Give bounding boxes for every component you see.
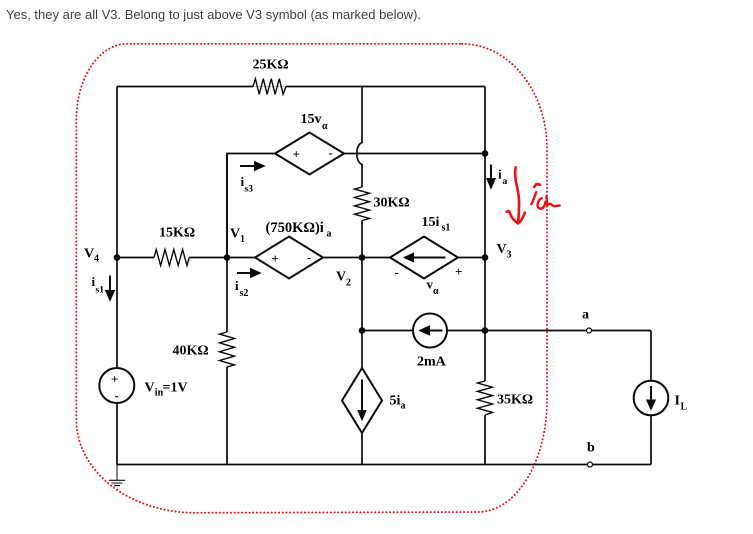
node dot at x485 y330.5 bbox=[482, 327, 489, 334]
current arrow i_a bbox=[486, 165, 496, 190]
svg-text:s3: s3 bbox=[245, 185, 254, 195]
svg-text:α: α bbox=[433, 286, 439, 297]
label 35KΩ bbox=[497, 393, 533, 408]
label i_a bbox=[498, 167, 508, 188]
svg-text:V: V bbox=[84, 247, 94, 262]
svg-text:a: a bbox=[582, 307, 589, 322]
svg-text:+: + bbox=[272, 251, 279, 266]
current arrow i_s1 bbox=[105, 276, 115, 302]
svg-text:35KΩ: 35KΩ bbox=[497, 393, 533, 408]
node V2 dot bbox=[359, 254, 366, 261]
node dot at x362 y330.5 bbox=[359, 327, 366, 334]
dependent source U1 15v_alpha diamond bbox=[275, 133, 344, 175]
label V1 bbox=[230, 227, 245, 245]
svg-text:a: a bbox=[503, 177, 508, 187]
label 30KΩ bbox=[374, 196, 410, 211]
label 40KΩ bbox=[173, 344, 209, 359]
svg-text:15i: 15i bbox=[422, 215, 440, 230]
resistor 25KΩ bbox=[253, 79, 286, 95]
svg-text:V: V bbox=[497, 242, 507, 257]
label (750KΩ)i_a bbox=[266, 220, 332, 239]
svg-text:+: + bbox=[111, 372, 118, 387]
svg-text:=1V: =1V bbox=[163, 381, 188, 396]
svg-text:V: V bbox=[336, 269, 346, 284]
svg-text:i: i bbox=[235, 278, 239, 293]
terminal b bbox=[587, 441, 595, 468]
label 5i_a bbox=[390, 394, 406, 412]
label V2 bbox=[336, 269, 351, 288]
node V1 dot bbox=[224, 254, 231, 261]
current arrow i_s3 bbox=[240, 161, 266, 171]
wire IL branch vertical (x=651) bbox=[650, 331, 652, 465]
voltage source Vin circle bbox=[99, 368, 134, 403]
label i_s2 bbox=[235, 278, 248, 299]
label V4 bbox=[84, 247, 99, 265]
svg-text:-: - bbox=[395, 265, 399, 280]
svg-text:-: - bbox=[307, 250, 311, 265]
svg-text:α: α bbox=[322, 121, 328, 132]
label 15KΩ bbox=[159, 226, 195, 241]
svg-text:+: + bbox=[455, 264, 462, 279]
terminal a bbox=[582, 307, 592, 333]
svg-text:5i: 5i bbox=[390, 394, 401, 409]
svg-text:15v: 15v bbox=[301, 112, 322, 127]
node V4 dot bbox=[114, 254, 121, 261]
svg-text:(750KΩ)i: (750KΩ)i bbox=[266, 220, 324, 236]
label 15i_s1 bbox=[422, 215, 451, 234]
label v_alpha of U3 bbox=[427, 277, 440, 298]
wire bottom rail (y=464.5) bbox=[117, 464, 651, 466]
resistor 15KΩ bbox=[154, 250, 189, 266]
svg-text:i: i bbox=[498, 167, 502, 182]
svg-text:+: + bbox=[293, 147, 300, 162]
node dot at x485 y153.5 bbox=[482, 150, 489, 157]
label V3 bbox=[497, 242, 512, 260]
svg-text:s1: s1 bbox=[442, 223, 451, 234]
svg-text:40KΩ: 40KΩ bbox=[173, 344, 209, 359]
label IL bbox=[675, 394, 688, 413]
label Vin=1V bbox=[145, 381, 188, 399]
wire upper row (y=153.5 from x=227 to x=275 and x=344 to x=485) bbox=[227, 154, 485, 258]
node V3 dot bbox=[482, 254, 489, 261]
red dotted boundary bbox=[76, 44, 547, 513]
resistor 30KΩ bbox=[355, 187, 370, 220]
wire top (node top rail y=86.5 from x=117 to x=485) bbox=[117, 86, 485, 88]
label 25KΩ bbox=[253, 58, 289, 73]
red hand-drawn arrow ich bbox=[507, 167, 525, 223]
wire middle vertical with hop (x=362) bbox=[357, 87, 362, 465]
svg-text:I: I bbox=[675, 394, 680, 409]
label 2mA bbox=[417, 355, 447, 370]
svg-text:s1: s1 bbox=[96, 286, 105, 296]
svg-text:s2: s2 bbox=[240, 288, 249, 299]
current arrow i_s2 bbox=[237, 268, 262, 278]
svg-text:15KΩ: 15KΩ bbox=[159, 226, 195, 241]
svg-text:b: b bbox=[587, 441, 595, 456]
wire right vertical (x=485) bbox=[484, 87, 486, 465]
svg-text:2: 2 bbox=[346, 277, 351, 288]
svg-text:25KΩ: 25KΩ bbox=[253, 58, 289, 73]
svg-text:-: - bbox=[329, 145, 333, 160]
label minus of U3 bbox=[395, 265, 399, 280]
dependent source U3 15i_s1 diamond bbox=[390, 237, 458, 279]
svg-text:1: 1 bbox=[240, 234, 245, 245]
wire V1 branch vertical (x=227) bbox=[226, 154, 228, 465]
svg-text:V: V bbox=[145, 381, 155, 396]
resistor 40KΩ bbox=[220, 332, 235, 367]
current source IL circle bbox=[634, 381, 669, 416]
label i_s3 bbox=[241, 174, 254, 195]
caption text bbox=[6, 7, 421, 22]
label 15v_alpha bbox=[301, 112, 329, 132]
wire middle row (y=257.5 from x=117 to x=485) bbox=[117, 257, 485, 259]
red handwriting ia bbox=[531, 184, 559, 209]
svg-text:V: V bbox=[230, 227, 240, 242]
dependent source U4 5i_a diamond bbox=[342, 368, 382, 433]
svg-text:L: L bbox=[681, 402, 688, 413]
svg-text:a: a bbox=[327, 229, 332, 240]
svg-text:30KΩ: 30KΩ bbox=[374, 196, 410, 211]
current source 2mA circle bbox=[413, 314, 447, 348]
svg-text:3: 3 bbox=[507, 250, 512, 261]
label i_s1 bbox=[92, 274, 105, 296]
svg-text:2mA: 2mA bbox=[417, 355, 447, 370]
svg-text:4: 4 bbox=[94, 254, 99, 265]
dependent source U2 (750KΩ)i_a diamond bbox=[255, 237, 323, 279]
wire left vertical (x=117) bbox=[116, 87, 118, 465]
wire 2mA row (y=330.5 from x=362 to x=651) bbox=[362, 330, 651, 332]
label plus of U3 bbox=[455, 264, 462, 279]
ground bbox=[109, 465, 125, 486]
svg-text:a: a bbox=[401, 401, 406, 412]
resistor 35KΩ bbox=[478, 381, 493, 415]
